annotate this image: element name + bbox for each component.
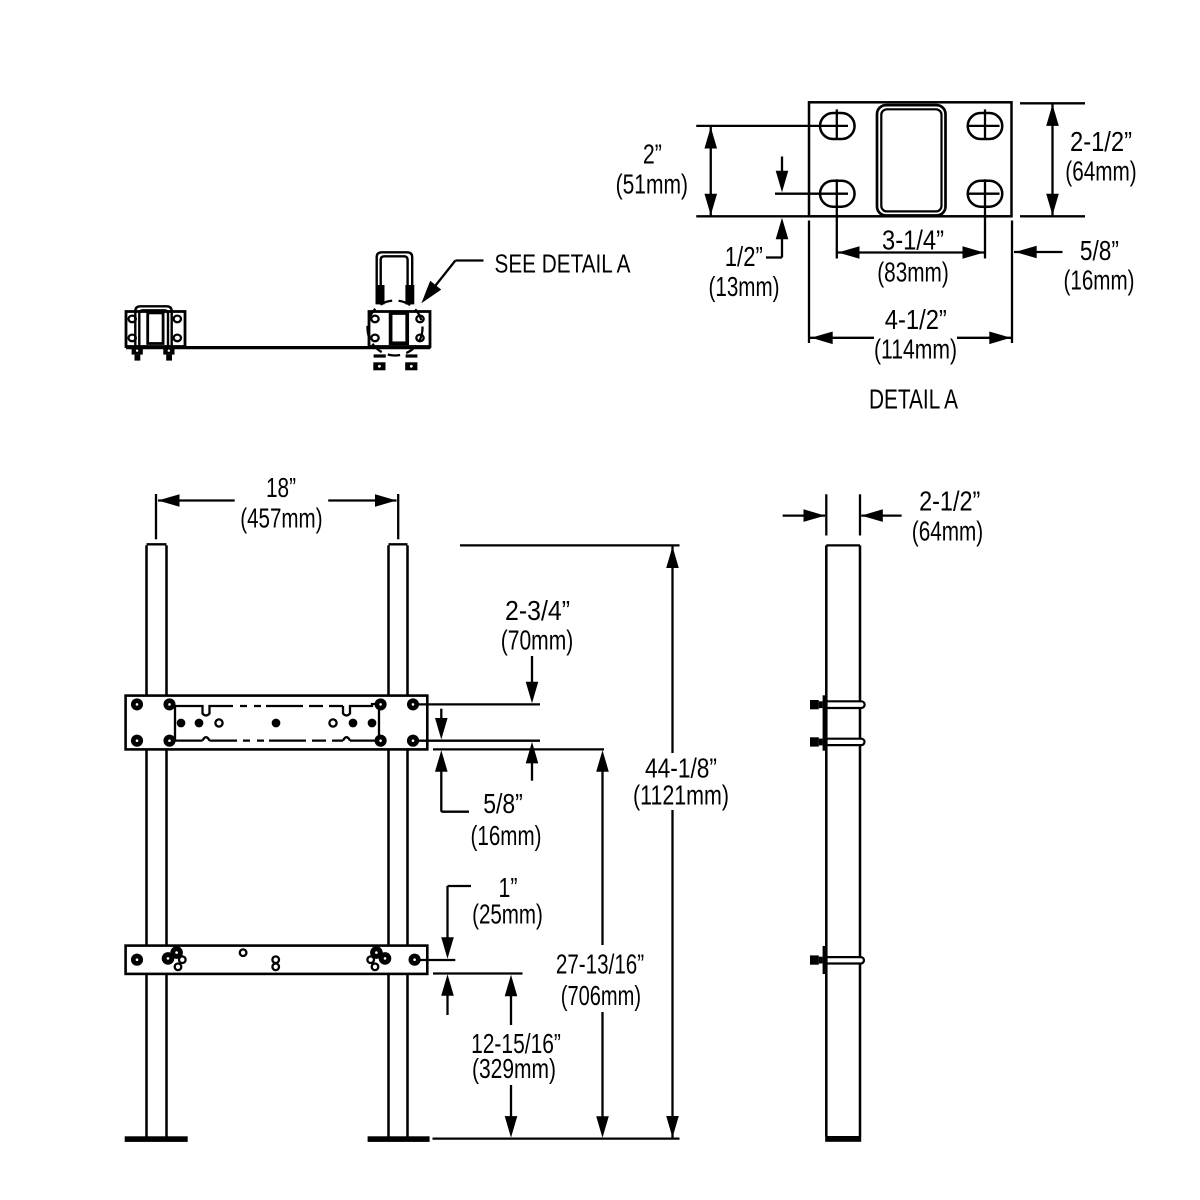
dim 2in xyxy=(710,126,712,216)
left U-bolt loop (plan) xyxy=(135,306,171,346)
right post foot xyxy=(368,1136,430,1142)
right post tube section (plan) xyxy=(391,313,408,343)
left post foot xyxy=(125,1136,188,1142)
dim 18in ext lines xyxy=(155,494,157,539)
ext line bottom bolt center xyxy=(415,740,540,742)
left post xyxy=(145,545,148,695)
upper bracket inner panel outline xyxy=(175,704,379,741)
svg-text:4-1/2”: 4-1/2” xyxy=(885,304,947,335)
upper bracket U-bolt heads xyxy=(131,698,419,746)
detail A post tube inner xyxy=(881,109,941,211)
dim 2-3/4in xyxy=(531,656,533,684)
hidden bolt lines below right plate xyxy=(374,354,386,357)
lower bracket bolts xyxy=(131,946,421,965)
ext line bottom hole center xyxy=(775,193,848,195)
ext line bracket bottom xyxy=(433,748,604,750)
svg-text:2-1/2”: 2-1/2” xyxy=(1070,126,1132,157)
dim 2-1/2in ext lines xyxy=(825,494,827,535)
svg-text:(64mm): (64mm) xyxy=(912,516,983,547)
lower clamp bolt (side) xyxy=(810,955,819,964)
svg-text:2-1/2”: 2-1/2” xyxy=(919,486,980,517)
svg-text:(457mm): (457mm) xyxy=(240,502,322,533)
svg-text:DETAIL A: DETAIL A xyxy=(869,383,958,414)
lower bracket plate xyxy=(126,946,428,974)
right U-bolt raised legs xyxy=(377,252,413,304)
svg-text:(51mm): (51mm) xyxy=(616,169,688,200)
left plate slot holes (plan) xyxy=(129,316,136,323)
ext line lower bracket bottom xyxy=(433,972,523,974)
dim 5/8in xyxy=(440,709,442,719)
dim 4-1/2in xyxy=(810,337,874,339)
ext line lower bolt center xyxy=(417,959,455,961)
upper clamp bolt 2 (side) xyxy=(810,737,819,746)
right plate slot holes (plan) xyxy=(371,316,378,323)
side post foot xyxy=(825,1136,861,1142)
dim 3-1/4in xyxy=(837,251,985,253)
dim 27-13/16in xyxy=(601,771,603,946)
slot hole top-left xyxy=(820,113,855,139)
dim 1/2in xyxy=(781,157,783,173)
right post xyxy=(387,545,390,695)
left bracket mounting bolts below plate xyxy=(132,348,143,355)
svg-text:5/8”: 5/8” xyxy=(1080,235,1119,266)
dim 12-15/16in xyxy=(510,995,512,1025)
svg-text:(25mm): (25mm) xyxy=(472,899,543,930)
floor ext line xyxy=(433,1137,680,1139)
svg-text:(706mm): (706mm) xyxy=(561,980,641,1011)
ext line top hole center xyxy=(696,125,848,127)
detail A post tube outer xyxy=(877,105,946,215)
dim 2-1/2in xyxy=(1051,103,1053,216)
svg-text:18”: 18” xyxy=(266,472,296,503)
posts top ext line xyxy=(460,544,680,546)
svg-text:2”: 2” xyxy=(643,138,662,169)
side post xyxy=(825,545,828,1136)
ext lines 2-1/2in xyxy=(1020,102,1085,104)
svg-text:(329mm): (329mm) xyxy=(472,1053,556,1084)
lower bracket small holes xyxy=(179,956,186,963)
bottom-right hole centerline xyxy=(984,179,986,258)
svg-text:(70mm): (70mm) xyxy=(501,625,574,656)
dim 18in xyxy=(158,499,235,501)
svg-text:(64mm): (64mm) xyxy=(1065,155,1136,186)
svg-text:27-13/16”: 27-13/16” xyxy=(556,949,644,980)
detail A plate xyxy=(809,102,1012,216)
detail circle (dashed) xyxy=(368,301,423,356)
svg-text:SEE DETAIL A: SEE DETAIL A xyxy=(495,250,631,278)
lower clamp plate (side) xyxy=(823,946,827,974)
svg-text:(83mm): (83mm) xyxy=(877,256,949,287)
svg-text:(114mm): (114mm) xyxy=(874,334,957,365)
slot hole bottom-right xyxy=(968,181,1003,207)
ext line top bolt center xyxy=(415,703,540,705)
upper clamp plate (side) xyxy=(823,695,827,750)
dim 5/8in xyxy=(1014,251,1063,253)
cross rail (plan) xyxy=(126,346,431,349)
svg-text:2-3/4”: 2-3/4” xyxy=(505,595,570,626)
slot hole bottom-left xyxy=(820,181,855,207)
dim 2-1/2in xyxy=(783,514,825,516)
svg-text:3-1/4”: 3-1/4” xyxy=(882,224,944,255)
dim 44-1/8in xyxy=(671,545,673,753)
svg-text:(16mm): (16mm) xyxy=(471,820,542,851)
svg-text:5/8”: 5/8” xyxy=(483,788,523,819)
left post tube section (plan) xyxy=(148,313,163,344)
right U-bolt bracket plate (plan) xyxy=(369,312,430,347)
svg-text:(16mm): (16mm) xyxy=(1064,264,1135,295)
svg-text:(1121mm): (1121mm) xyxy=(633,780,729,811)
upper bracket small holes xyxy=(177,719,377,728)
right bracket nuts below xyxy=(373,362,385,370)
dim 1in leader xyxy=(448,885,472,887)
svg-text:1/2”: 1/2” xyxy=(725,241,763,272)
ext line plate bottom left xyxy=(696,215,810,217)
svg-text:(13mm): (13mm) xyxy=(709,271,780,302)
left U-bolt bracket plate (plan) xyxy=(126,312,185,347)
slot hole top-right xyxy=(968,113,1003,139)
upper clamp bolt 1 (side) xyxy=(810,700,819,709)
plate edge ext lines xyxy=(808,221,810,344)
leader line SEE DETAIL A xyxy=(455,259,483,261)
bottom-left hole centerline xyxy=(836,179,838,258)
upper bracket plate xyxy=(126,696,428,750)
